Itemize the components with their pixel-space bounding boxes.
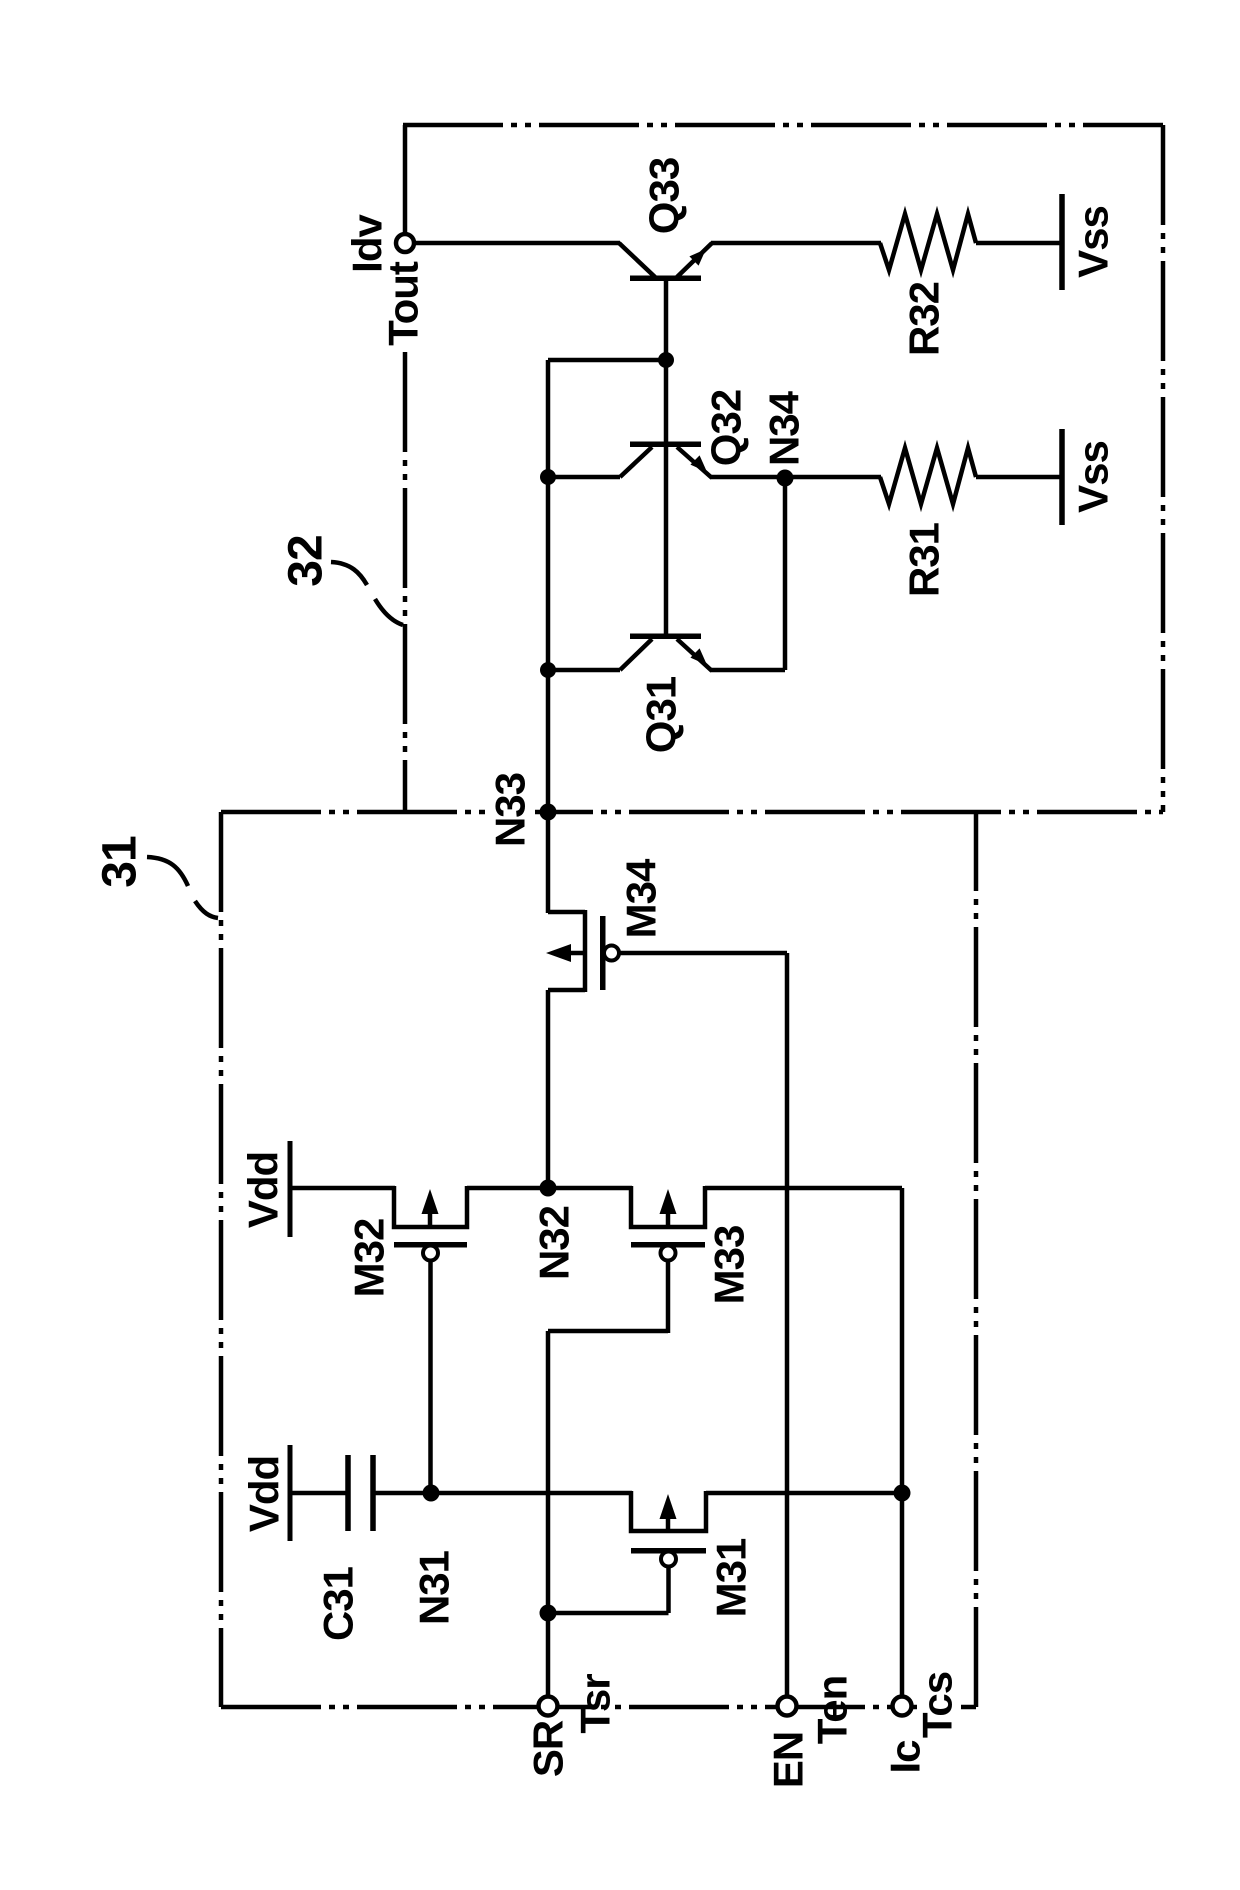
svg-text:SR: SR — [525, 1720, 572, 1777]
terminal Tcs — [893, 1697, 912, 1716]
svg-text:Vdd: Vdd — [240, 1152, 287, 1228]
wire Q31 collector to rail — [548, 668, 620, 673]
svg-text:R31: R31 — [901, 522, 948, 597]
wire EN vertical — [785, 953, 790, 1697]
junction dot Q31 collector — [540, 662, 556, 678]
wire Vdd to C31 — [292, 1491, 346, 1496]
wire Q31 emitter across — [711, 668, 785, 673]
junction dot on Tsr line — [540, 1605, 557, 1622]
svg-text:Vss: Vss — [1070, 441, 1117, 513]
transistor Q33 — [619, 243, 712, 634]
svg-text:R32: R32 — [901, 282, 948, 356]
ground Vss of R31 — [1059, 429, 1065, 525]
junction dot on Ic line — [894, 1485, 911, 1502]
supply Vdd bar lower — [288, 1445, 293, 1541]
wire M31 to Ic line — [706, 1491, 902, 1496]
transistor Q31 — [620, 634, 712, 672]
wire M34 gate to EN line — [619, 951, 787, 956]
svg-text:32: 32 — [280, 535, 333, 586]
terminal Ten — [778, 1697, 797, 1716]
leader squiggle for label 31 — [147, 857, 188, 886]
svg-text:M32: M32 — [346, 1219, 393, 1298]
wire Q31 emitter up to N34 — [783, 477, 788, 670]
wire M31 gate to Tsr line — [548, 1611, 669, 1616]
gap in border under N33 label — [488, 805, 535, 819]
node dot below Q33 — [658, 352, 674, 368]
wire Q32 collector to rail — [548, 475, 620, 480]
ground Vss of R32 — [1059, 194, 1065, 290]
node N32 dot — [540, 1180, 557, 1197]
left rail vertical — [546, 360, 551, 913]
terminal Tsr — [539, 1697, 558, 1716]
capacitor C31 — [348, 1455, 373, 1531]
svg-text:Ten: Ten — [809, 1676, 856, 1745]
wire Q33 emitter to R32 — [711, 241, 881, 246]
box 31 / box 32 shared border — [221, 810, 1163, 815]
wire N32 to M33 — [548, 1186, 632, 1191]
MOSFET M34 — [546, 910, 619, 992]
wire Ic vertical — [900, 1188, 905, 1697]
svg-text:Q32: Q32 — [703, 390, 750, 466]
wire M33 gate to Tsr line — [548, 1329, 668, 1334]
resistor R32 — [880, 214, 976, 270]
wire dot to left rail — [548, 358, 666, 363]
wire Tsr vertical — [546, 1331, 551, 1697]
svg-text:Tsr: Tsr — [572, 1674, 619, 1734]
wire M32 to N32 — [467, 1186, 548, 1191]
svg-text:Tout: Tout — [380, 261, 427, 346]
resistor R31 — [880, 448, 976, 504]
supply Vdd bar upper — [288, 1141, 293, 1237]
svg-text:M33: M33 — [706, 1226, 753, 1305]
wire M34 source down to N32 — [546, 990, 551, 1188]
svg-text:N34: N34 — [761, 390, 808, 466]
box 32 border top-left solid segment — [403, 125, 408, 233]
wire R32 to Vss — [976, 241, 1061, 246]
box 32 border left edge lower — [403, 352, 408, 812]
svg-text:C31: C31 — [315, 1566, 362, 1641]
wire C31 to N31 — [375, 1491, 431, 1496]
svg-text:N33: N33 — [487, 773, 534, 847]
node N31 dot — [423, 1485, 440, 1502]
box 31 border left edge — [219, 812, 224, 1707]
wire M33 to Ic line — [705, 1186, 902, 1191]
svg-text:M31: M31 — [708, 1538, 755, 1617]
svg-text:Ic: Ic — [882, 1740, 929, 1774]
wire Q32 emitter to N34 — [711, 475, 786, 480]
wire R31 to Vss — [976, 475, 1061, 480]
wire M31 gate down — [666, 1567, 671, 1613]
svg-text:M34: M34 — [618, 858, 665, 938]
box 31 border bottom edge — [221, 1705, 976, 1710]
box 31 border right edge — [974, 812, 979, 1707]
svg-text:31: 31 — [94, 836, 147, 888]
svg-text:Vdd: Vdd — [241, 1456, 288, 1532]
svg-text:Tcs: Tcs — [914, 1672, 961, 1738]
junction dot Q32 collector — [540, 469, 556, 485]
gap in border under Tcs label — [917, 1700, 961, 1713]
node N33 dot — [540, 804, 557, 821]
node N34 dot — [777, 470, 794, 487]
wire Tout to Q33 collector — [413, 241, 620, 246]
svg-text:Q31: Q31 — [638, 676, 685, 753]
svg-text:Q33: Q33 — [641, 158, 688, 234]
terminal Tout — [396, 234, 414, 252]
MOSFET M32 — [394, 1186, 467, 1261]
wire Vdd to M32 — [292, 1186, 395, 1191]
leader squiggle for label 32 — [331, 562, 367, 585]
svg-text:N32: N32 — [531, 1206, 578, 1280]
wire N31 to M31 — [431, 1491, 632, 1496]
box 32 border right edge — [1161, 125, 1166, 812]
transistor Q32 — [620, 442, 712, 479]
svg-text:EN: EN — [765, 1732, 812, 1788]
MOSFET M33 — [631, 1186, 705, 1261]
MOSFET M31 — [631, 1491, 706, 1567]
svg-text:Vss: Vss — [1070, 206, 1117, 278]
svg-text:N31: N31 — [411, 1550, 458, 1625]
wire N34 to R31 — [785, 475, 881, 480]
box 32 border top edge — [403, 123, 1163, 128]
wire M32 gate down to N31 — [428, 1261, 433, 1493]
wire M33 gate down — [666, 1261, 671, 1333]
